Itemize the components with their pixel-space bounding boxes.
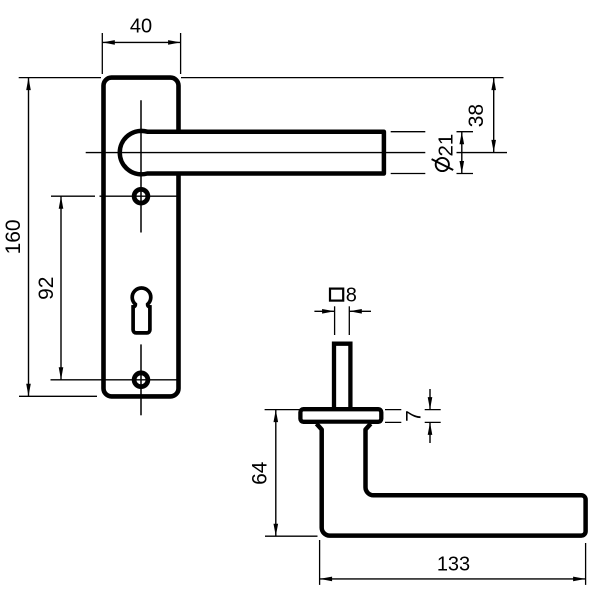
horizontal centerline extension right (38 reference) (457, 152, 508, 154)
rose / washer (300, 409, 381, 422)
svg-text:21: 21 (434, 134, 457, 157)
lever handle (front view capsule) (120, 131, 384, 174)
dimension 160 (left) (2, 78, 101, 397)
dimension square-8 (spindle) (314, 285, 371, 335)
bottom screw centerline (51, 379, 178, 381)
vertical centerline (lower segment) (140, 344, 142, 415)
plate top extension line (38 reference) (181, 77, 504, 79)
svg-text:8: 8 (346, 285, 357, 307)
horizontal centerline of lever (86, 152, 426, 154)
spindle (square 8) (334, 344, 350, 411)
dimension 92 (left inner) (35, 196, 64, 380)
top screw centerline (51, 195, 95, 197)
dimension 40 (top) (102, 16, 180, 75)
dimension Ø21 (lever diameter) (391, 132, 473, 174)
svg-text:38: 38 (465, 104, 488, 127)
vertical centerline (upper segment) (140, 100, 142, 232)
dimension 133 (length) (320, 540, 586, 585)
svg-text:40: 40 (130, 16, 152, 38)
dimension 38 (right) (465, 78, 496, 153)
keyhole (132, 288, 151, 333)
top screw (134, 189, 148, 203)
lever profile (neck + grip) (317, 424, 586, 536)
svg-text:7: 7 (403, 410, 426, 422)
svg-text:92: 92 (35, 277, 58, 300)
svg-text:160: 160 (2, 219, 25, 254)
backplate outline (104, 78, 179, 397)
svg-text:64: 64 (249, 461, 272, 485)
dimension 64 (height) (249, 410, 318, 537)
dimension 7 (rose thickness) (385, 389, 441, 443)
bottom screw (134, 373, 148, 387)
svg-text:133: 133 (437, 553, 470, 575)
